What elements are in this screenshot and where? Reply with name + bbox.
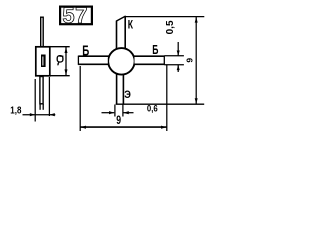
svg-text:Б: Б: [82, 42, 89, 58]
svg-text:0,5: 0,5: [165, 20, 176, 34]
svg-text:1,8: 1,8: [10, 105, 21, 116]
svg-text:9: 9: [185, 58, 195, 63]
svg-text:Б: Б: [152, 43, 158, 57]
svg-text:К: К: [128, 20, 134, 32]
svg-text:9: 9: [116, 115, 121, 128]
svg-text:Э: Э: [124, 89, 131, 101]
svg-text:57: 57: [62, 3, 87, 28]
svg-text:0,6: 0,6: [147, 103, 158, 114]
